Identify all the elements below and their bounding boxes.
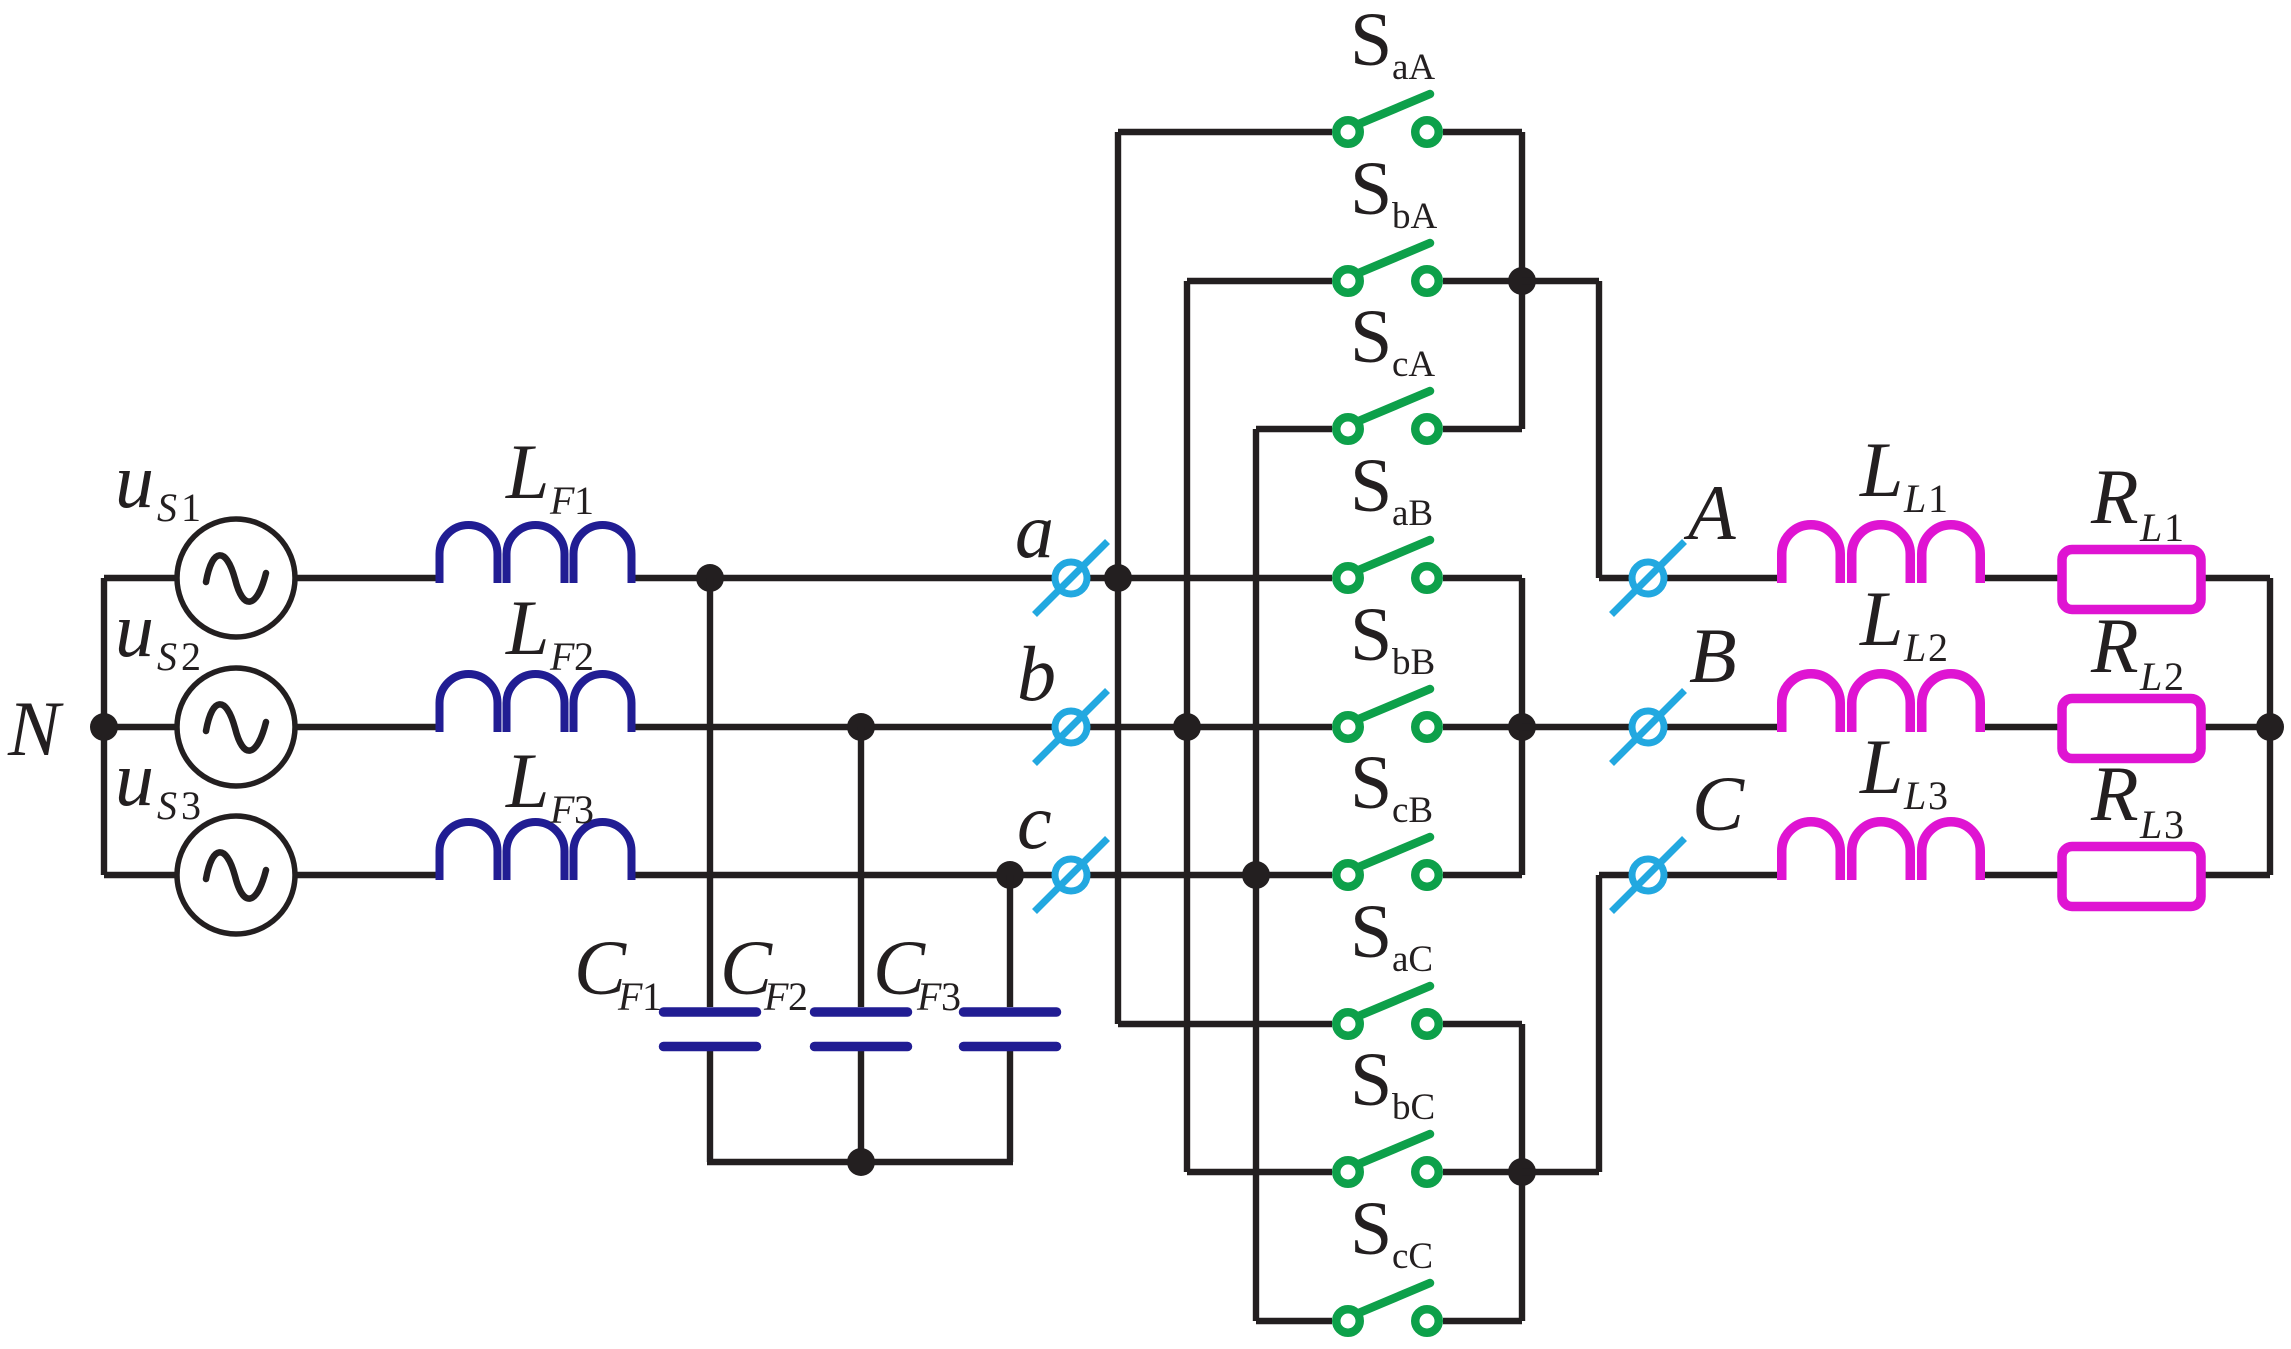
junction output-B column — [1508, 713, 1536, 741]
svg-text:cA: cA — [1392, 344, 1435, 385]
label node a — [1015, 487, 1054, 574]
svg-text:3: 3 — [2164, 802, 2184, 847]
svg-text:3: 3 — [181, 783, 201, 828]
label switch SbC — [1350, 1038, 1435, 1128]
junction phase-c column — [1242, 861, 1270, 889]
svg-text:L: L — [1903, 625, 1926, 670]
node a sensor — [1035, 542, 1108, 615]
wire output-A to LL1 via node A — [1599, 575, 1783, 581]
label node A — [1683, 469, 1736, 556]
svg-text:L: L — [505, 584, 549, 671]
svg-text:F: F — [549, 478, 575, 523]
wire uS2 to LF2 — [295, 724, 442, 730]
wire LF2 to matrix via node b — [629, 724, 1332, 730]
svg-text:S: S — [1350, 1038, 1392, 1122]
capacitor CF3 — [964, 1012, 1057, 1047]
label LL1 — [1859, 426, 1948, 521]
junction output-C column — [1508, 1158, 1536, 1186]
svg-text:cC: cC — [1392, 1236, 1433, 1277]
wire LF1 to matrix via node a — [629, 575, 1332, 581]
svg-text:S: S — [157, 634, 177, 679]
wire CF1 bottom lead — [707, 1044, 713, 1162]
svg-text:L: L — [1859, 723, 1903, 810]
svg-text:S: S — [1350, 741, 1392, 825]
label switch ScA — [1350, 295, 1435, 385]
wire output-B to LL2 via node B — [1522, 724, 1783, 730]
label node c — [1017, 778, 1052, 865]
wire LL1 to RL1 — [1979, 575, 2060, 581]
svg-text:bB: bB — [1392, 642, 1435, 683]
switch SbB — [1336, 689, 1439, 739]
svg-text:2: 2 — [574, 634, 594, 679]
label N — [7, 685, 64, 772]
label RL3 — [2090, 750, 2184, 847]
wire output-C to LL3 via node C — [1599, 872, 1783, 878]
resistor RL3 — [2062, 847, 2201, 907]
svg-text:u: u — [115, 437, 154, 524]
wire output-A link vertical — [1596, 281, 1602, 578]
svg-text:F: F — [549, 634, 575, 679]
svg-text:b: b — [1017, 630, 1056, 717]
svg-text:3: 3 — [1928, 773, 1948, 818]
svg-text:L: L — [2139, 802, 2162, 847]
svg-text:bA: bA — [1392, 196, 1438, 237]
switch SaA — [1336, 94, 1439, 144]
svg-text:R: R — [2090, 750, 2139, 837]
svg-text:S: S — [1350, 890, 1392, 974]
svg-text:bC: bC — [1392, 1087, 1435, 1128]
node c sensor — [1035, 839, 1108, 912]
wire N to source uS1 — [104, 575, 177, 581]
wire output-C column — [1519, 1024, 1525, 1321]
voltage source uS2 — [177, 668, 295, 786]
junction load rail — [2256, 713, 2284, 741]
node A sensor — [1612, 542, 1685, 615]
label uS1 — [115, 437, 201, 530]
wire ScA output side — [1443, 426, 1522, 432]
label switch SbA — [1350, 147, 1438, 237]
wire CF3 top lead — [1007, 875, 1013, 1007]
svg-text:C: C — [1692, 760, 1745, 847]
label uS2 — [115, 586, 201, 679]
label node C — [1692, 760, 1745, 847]
capacitor CF2 — [815, 1012, 908, 1047]
resistor RL1 — [2062, 550, 2201, 610]
svg-text:S: S — [1350, 0, 1392, 82]
switch SbC — [1336, 1134, 1439, 1184]
wire output-A column — [1519, 132, 1525, 429]
svg-text:aB: aB — [1392, 493, 1433, 534]
inductor LF1 — [440, 525, 632, 583]
svg-text:L: L — [1859, 575, 1903, 662]
wire uS1 to LF1 — [295, 575, 442, 581]
svg-text:aA: aA — [1392, 47, 1435, 88]
svg-text:L: L — [505, 428, 549, 515]
svg-text:2: 2 — [181, 634, 201, 679]
label node B — [1689, 612, 1737, 699]
switch SbA — [1336, 243, 1439, 293]
svg-text:2: 2 — [788, 974, 808, 1019]
wire output-B column — [1519, 578, 1525, 875]
svg-text:L: L — [2139, 505, 2162, 550]
svg-text:2: 2 — [1928, 625, 1948, 670]
wire to switch ScC — [1256, 1318, 1332, 1324]
wire SbB output side — [1443, 724, 1522, 730]
label switch SaC — [1350, 890, 1433, 980]
label switch SbB — [1350, 593, 1435, 683]
label RL1 — [2090, 453, 2184, 550]
svg-text:L: L — [1859, 426, 1903, 513]
wire RL3 to load rail — [2203, 872, 2270, 878]
wire SaA output side — [1443, 129, 1522, 135]
svg-text:S: S — [157, 485, 177, 530]
inductor LF2 — [440, 674, 632, 732]
svg-text:L: L — [505, 737, 549, 824]
capacitor CF1 — [664, 1012, 757, 1047]
svg-text:F: F — [916, 974, 942, 1019]
wire SaC output side — [1443, 1021, 1522, 1027]
svg-text:F: F — [617, 974, 643, 1019]
switch ScB — [1336, 837, 1439, 887]
svg-text:R: R — [2090, 453, 2139, 540]
junction phase-a column — [1104, 564, 1132, 592]
switch ScC — [1336, 1283, 1439, 1333]
svg-text:L: L — [1903, 476, 1926, 521]
node C sensor — [1612, 839, 1685, 912]
wire to switch SaC — [1118, 1021, 1332, 1027]
wire N to source uS3 — [104, 872, 177, 878]
svg-text:S: S — [1350, 444, 1392, 528]
svg-text:S: S — [1350, 1187, 1392, 1271]
wire output-C link vertical — [1596, 875, 1602, 1172]
svg-text:u: u — [115, 586, 154, 673]
label CF1 — [574, 924, 662, 1019]
svg-text:c: c — [1017, 778, 1052, 865]
inductor LF3 — [440, 822, 632, 880]
junction capacitor rail — [847, 1148, 875, 1176]
svg-text:S: S — [1350, 593, 1392, 677]
wire phase-b column — [1184, 281, 1190, 1172]
label RL2 — [2090, 602, 2184, 699]
wire LL3 to RL3 — [1979, 872, 2060, 878]
inductor LL3 — [1782, 822, 1981, 880]
wire CF3 bottom lead — [1007, 1044, 1013, 1162]
svg-text:L: L — [2139, 654, 2162, 699]
wire CF1 top lead — [707, 578, 713, 1007]
wire to switch ScA — [1256, 426, 1332, 432]
wire output-C link horizontal — [1522, 1169, 1599, 1175]
wire RL1 to load rail — [2203, 575, 2270, 581]
junction CF1 on phase a — [696, 564, 724, 592]
label uS3 — [115, 735, 201, 828]
wire RL2 to load rail — [2203, 724, 2270, 730]
svg-text:1: 1 — [642, 974, 662, 1019]
label LF2 — [505, 584, 594, 679]
label LF1 — [505, 428, 594, 523]
wire SaB output side — [1443, 575, 1522, 581]
svg-text:3: 3 — [574, 787, 594, 832]
resistor RL2 — [2062, 699, 2201, 759]
svg-text:1: 1 — [1928, 476, 1948, 521]
label CF2 — [720, 924, 808, 1019]
switch SaB — [1336, 540, 1439, 590]
wire to switch SbC — [1187, 1169, 1332, 1175]
label CF3 — [873, 924, 961, 1019]
junction CF2 on phase b — [847, 713, 875, 741]
inductor LL1 — [1782, 525, 1981, 583]
label switch SaA — [1350, 0, 1435, 88]
svg-text:B: B — [1689, 612, 1737, 699]
wire ScC output side — [1443, 1318, 1522, 1324]
svg-text:S: S — [157, 783, 177, 828]
wire CF2 top lead — [858, 727, 864, 1007]
wire phase-c column — [1253, 429, 1259, 1321]
inductor LL2 — [1782, 674, 1981, 732]
switch ScA — [1336, 391, 1439, 441]
svg-text:S: S — [1350, 147, 1392, 231]
svg-text:3: 3 — [941, 974, 961, 1019]
wire uS3 to LF3 — [295, 872, 442, 878]
svg-text:1: 1 — [574, 478, 594, 523]
svg-text:R: R — [2090, 602, 2139, 689]
voltage source uS1 — [177, 519, 295, 637]
junction output-A column — [1508, 267, 1536, 295]
svg-text:F: F — [763, 974, 789, 1019]
wire to switch SaA — [1118, 129, 1332, 135]
svg-text:a: a — [1015, 487, 1054, 574]
svg-text:u: u — [115, 735, 154, 822]
switch SaC — [1336, 986, 1439, 1036]
voltage source uS3 — [177, 816, 295, 934]
wire load common rail — [2267, 578, 2273, 875]
svg-text:cB: cB — [1392, 790, 1433, 831]
svg-text:N: N — [7, 685, 64, 772]
svg-text:aC: aC — [1392, 939, 1433, 980]
wire phase-a column — [1115, 132, 1121, 1024]
wire CF2 bottom lead — [858, 1044, 864, 1162]
svg-text:A: A — [1683, 469, 1736, 556]
label LL3 — [1859, 723, 1948, 818]
node b sensor — [1035, 691, 1108, 764]
label LF3 — [505, 737, 594, 832]
svg-text:L: L — [1903, 773, 1926, 818]
wire N to source uS2 — [104, 724, 177, 730]
svg-text:1: 1 — [2164, 505, 2184, 550]
wire SbA output side — [1443, 278, 1522, 284]
node N vertical rail — [101, 578, 107, 875]
wire LL2 to RL2 — [1979, 724, 2060, 730]
junction CF3 on phase c — [996, 861, 1024, 889]
svg-text:S: S — [1350, 295, 1392, 379]
wire capacitor common rail — [707, 1159, 1013, 1165]
wire output-A link horizontal — [1522, 278, 1599, 284]
wire to switch SbA — [1187, 278, 1332, 284]
node N junction — [90, 713, 118, 741]
label switch ScB — [1350, 741, 1433, 831]
wire LF3 to matrix via node c — [629, 872, 1332, 878]
svg-text:F: F — [549, 787, 575, 832]
node B sensor — [1612, 691, 1685, 764]
wire SbC output side — [1443, 1169, 1522, 1175]
junction phase-b column — [1173, 713, 1201, 741]
wire ScB output side — [1443, 872, 1522, 878]
label node b — [1017, 630, 1056, 717]
svg-text:2: 2 — [2164, 654, 2184, 699]
svg-text:1: 1 — [181, 485, 201, 530]
label switch SaB — [1350, 444, 1433, 534]
label switch ScC — [1350, 1187, 1433, 1277]
label LL2 — [1859, 575, 1948, 670]
